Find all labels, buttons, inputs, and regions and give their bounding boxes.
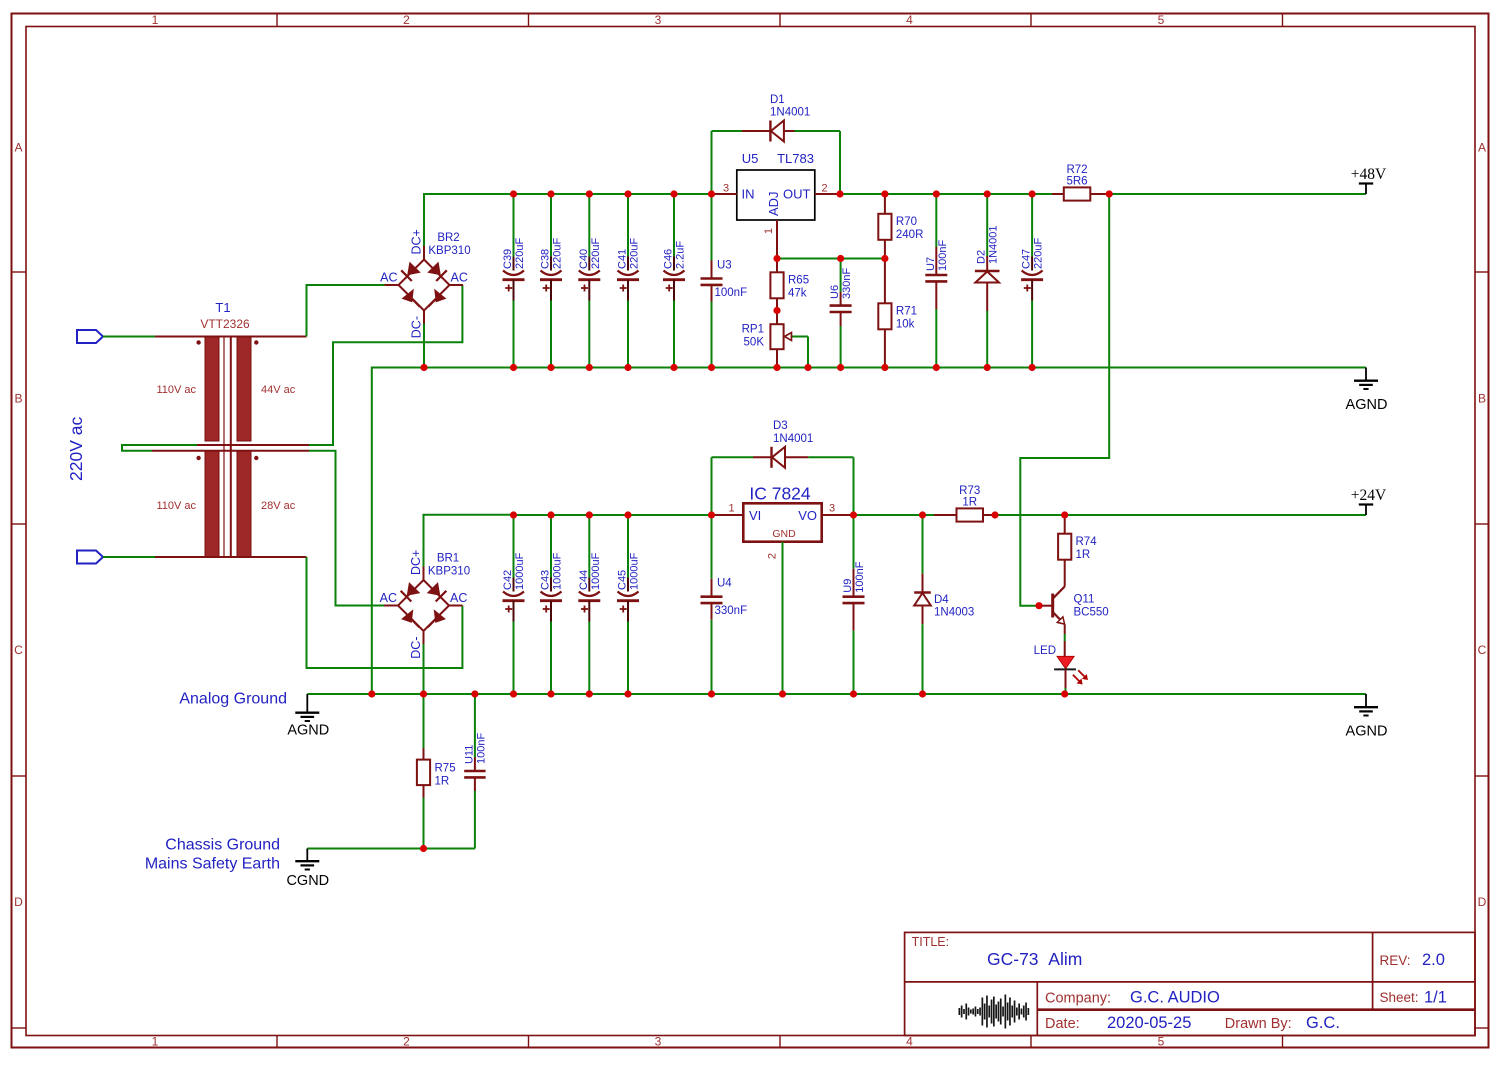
svg-text:T1: T1 bbox=[215, 300, 230, 315]
capacitor C40 220uF bbox=[578, 194, 602, 368]
svg-text:R70: R70 bbox=[896, 216, 917, 228]
svg-text:IN: IN bbox=[742, 187, 755, 202]
ground CGND bbox=[286, 849, 329, 890]
svg-text:R73: R73 bbox=[959, 485, 980, 497]
svg-text:G.C.: G.C. bbox=[1306, 1014, 1340, 1032]
svg-text:G.C. AUDIO: G.C. AUDIO bbox=[1130, 989, 1220, 1007]
svg-text:10k: 10k bbox=[896, 318, 915, 330]
power symbol +24V bbox=[1351, 487, 1387, 515]
capacitor C44 1000uF bbox=[578, 515, 602, 694]
svg-text:TITLE:: TITLE: bbox=[912, 935, 950, 949]
svg-text:AGND: AGND bbox=[1346, 724, 1388, 740]
svg-text:CGND: CGND bbox=[286, 873, 329, 889]
svg-text:C41: C41 bbox=[617, 249, 629, 269]
capacitor U11 100nF bbox=[463, 694, 487, 849]
ground AGND (top right) bbox=[1346, 368, 1388, 414]
svg-text:C43: C43 bbox=[540, 570, 552, 590]
capacitor C38 220uF bbox=[540, 194, 564, 368]
svg-text:KBP310: KBP310 bbox=[428, 566, 470, 578]
svg-text:+24V: +24V bbox=[1351, 487, 1387, 504]
potentiometer RP1 50K bbox=[742, 311, 808, 368]
wire +48V rail bbox=[1109, 193, 1366, 195]
company logo (audio waveform) bbox=[959, 995, 1030, 1029]
svg-text:LED: LED bbox=[1034, 645, 1056, 657]
svg-text:D: D bbox=[14, 895, 23, 909]
svg-text:3: 3 bbox=[829, 503, 835, 515]
capacitor C39 220uF bbox=[502, 194, 526, 368]
capacitor C41 220uF bbox=[617, 194, 641, 368]
svg-text:2: 2 bbox=[403, 13, 410, 27]
svg-text:D4: D4 bbox=[934, 594, 949, 606]
svg-text:100nF: 100nF bbox=[854, 561, 866, 592]
svg-text:KBP310: KBP310 bbox=[428, 245, 470, 257]
capacitor U7 100nF bbox=[925, 194, 949, 368]
capacitor U3 100nF bbox=[701, 194, 748, 368]
resistor R73 1R bbox=[934, 485, 995, 522]
svg-text:2: 2 bbox=[767, 553, 779, 559]
svg-text:1/1: 1/1 bbox=[1424, 989, 1447, 1007]
svg-text:2020-05-25: 2020-05-25 bbox=[1107, 1014, 1191, 1032]
svg-text:Company:: Company: bbox=[1045, 991, 1111, 1007]
svg-text:2.0: 2.0 bbox=[1422, 951, 1445, 969]
resistor R71 10k bbox=[878, 259, 917, 368]
ground AGND (bottom right) bbox=[1346, 694, 1388, 740]
svg-text:OUT: OUT bbox=[783, 187, 811, 202]
svg-text:5: 5 bbox=[1158, 13, 1165, 27]
svg-text:D2: D2 bbox=[976, 250, 988, 264]
svg-text:50K: 50K bbox=[744, 337, 765, 349]
diode D2 1N4001 bbox=[975, 194, 1000, 368]
svg-text:3: 3 bbox=[655, 1035, 662, 1049]
svg-text:AC: AC bbox=[380, 591, 397, 605]
svg-text:VI: VI bbox=[749, 508, 761, 523]
svg-text:1000uF: 1000uF bbox=[552, 552, 564, 590]
wire ADJ node bbox=[777, 258, 885, 260]
diode D3 1N4001 (bypass across IC 7824) bbox=[712, 420, 854, 515]
svg-text:BR2: BR2 bbox=[437, 232, 459, 244]
svg-text:AC: AC bbox=[450, 591, 467, 605]
svg-text:R74: R74 bbox=[1076, 536, 1098, 548]
resistor R65 47k bbox=[770, 259, 809, 311]
resistor R70 240R bbox=[878, 194, 923, 259]
svg-text:U6: U6 bbox=[829, 285, 841, 299]
svg-text:C38: C38 bbox=[540, 249, 552, 269]
svg-text:4: 4 bbox=[906, 1035, 913, 1049]
svg-text:1R: 1R bbox=[962, 497, 977, 509]
svg-text:C42: C42 bbox=[502, 570, 514, 590]
svg-text:1: 1 bbox=[763, 228, 775, 234]
svg-text:C47: C47 bbox=[1021, 249, 1033, 269]
wire output rail segment bbox=[840, 193, 1052, 195]
svg-text:2: 2 bbox=[821, 183, 827, 195]
wire VO to R73 bbox=[854, 514, 935, 516]
svg-text:C44: C44 bbox=[578, 570, 590, 590]
wire R72 output to Q11 base bbox=[1020, 194, 1109, 606]
svg-text:C: C bbox=[1478, 643, 1487, 657]
svg-text:220uF: 220uF bbox=[590, 238, 602, 269]
capacitor U4 330nF bbox=[701, 515, 748, 694]
svg-text:D1: D1 bbox=[770, 94, 785, 106]
wire 28V bottom to BR1 AC right bbox=[307, 557, 463, 668]
svg-text:C46: C46 bbox=[663, 249, 675, 269]
connector J1 (mains input top) bbox=[77, 330, 103, 343]
svg-text:Mains Safety Earth: Mains Safety Earth bbox=[145, 856, 280, 873]
svg-text:100nF: 100nF bbox=[715, 287, 748, 299]
svg-text:1: 1 bbox=[152, 1035, 159, 1049]
svg-text:220uF: 220uF bbox=[514, 238, 526, 269]
svg-text:U4: U4 bbox=[717, 578, 732, 590]
svg-text:D: D bbox=[1478, 895, 1487, 909]
svg-text:1N4001: 1N4001 bbox=[770, 107, 810, 119]
svg-text:BR1: BR1 bbox=[437, 553, 459, 565]
svg-text:330nF: 330nF bbox=[715, 605, 748, 617]
svg-text:R71: R71 bbox=[896, 305, 917, 317]
svg-text:REV:: REV: bbox=[1380, 953, 1411, 968]
svg-text:1000uF: 1000uF bbox=[629, 552, 641, 590]
wire BR2 DC- to ground bus bbox=[423, 324, 425, 368]
resistor R72 5R6 bbox=[1052, 164, 1109, 201]
LED bbox=[1034, 645, 1088, 694]
wire 24V input rail bbox=[514, 514, 712, 516]
svg-text:Date:: Date: bbox=[1045, 1016, 1080, 1032]
svg-text:5: 5 bbox=[1158, 1035, 1165, 1049]
svg-text:44V ac: 44V ac bbox=[261, 384, 296, 396]
row letters bbox=[14, 141, 1487, 910]
svg-text:3: 3 bbox=[655, 13, 662, 27]
svg-text:U5: U5 bbox=[742, 151, 759, 166]
transformer T1 VTT2326 bbox=[152, 300, 309, 557]
svg-text:GC-73 Alim: GC-73 Alim bbox=[987, 949, 1082, 969]
svg-text:100nF: 100nF bbox=[937, 240, 949, 271]
svg-text:DC+: DC+ bbox=[409, 550, 423, 575]
capacitor C45 1000uF bbox=[617, 515, 641, 694]
svg-text:1: 1 bbox=[728, 503, 734, 515]
svg-text:R72: R72 bbox=[1066, 164, 1087, 176]
title block bbox=[905, 932, 1475, 1035]
wire bbox=[103, 556, 155, 558]
capacitor U6 330nF bbox=[829, 259, 853, 368]
resistor R74 1R bbox=[1058, 515, 1097, 587]
svg-text:1N4001: 1N4001 bbox=[773, 433, 813, 445]
svg-text:110V ac: 110V ac bbox=[156, 384, 196, 396]
svg-text:1: 1 bbox=[152, 13, 159, 27]
svg-text:C40: C40 bbox=[578, 249, 590, 269]
bridge rectifier BR1 KBP310 bbox=[380, 550, 470, 659]
svg-text:U9: U9 bbox=[842, 579, 854, 593]
wire bbox=[103, 336, 155, 338]
svg-text:D3: D3 bbox=[773, 420, 788, 432]
svg-text:4: 4 bbox=[906, 13, 913, 27]
svg-text:TL783: TL783 bbox=[777, 151, 814, 166]
transistor Q11 BC550 bbox=[1039, 587, 1109, 657]
wire +24V rail bbox=[995, 514, 1366, 516]
svg-text:DC+: DC+ bbox=[410, 229, 424, 254]
svg-text:110V ac: 110V ac bbox=[156, 500, 196, 512]
svg-text:A: A bbox=[14, 141, 22, 155]
svg-text:B: B bbox=[14, 392, 22, 406]
svg-text:5R6: 5R6 bbox=[1066, 176, 1087, 188]
svg-text:1N4001: 1N4001 bbox=[988, 225, 1000, 264]
column numbers bbox=[152, 13, 1165, 1049]
svg-text:100nF: 100nF bbox=[475, 733, 487, 764]
wire BR1 DC+ to input rail bbox=[424, 515, 514, 567]
capacitor C46 2.2uF bbox=[663, 194, 687, 368]
svg-text:B: B bbox=[1478, 392, 1486, 406]
svg-text:Drawn By:: Drawn By: bbox=[1225, 1016, 1292, 1032]
svg-text:DC-: DC- bbox=[409, 637, 423, 659]
svg-text:1000uF: 1000uF bbox=[590, 552, 602, 590]
svg-text:U7: U7 bbox=[925, 257, 937, 271]
svg-text:R65: R65 bbox=[788, 274, 809, 286]
svg-text:C: C bbox=[14, 643, 23, 657]
svg-text:1R: 1R bbox=[1076, 549, 1091, 561]
bridge rectifier BR2 KBP310 bbox=[380, 229, 470, 338]
svg-text:ADJ: ADJ bbox=[766, 191, 781, 216]
svg-text:47k: 47k bbox=[788, 287, 807, 299]
svg-text:BC550: BC550 bbox=[1074, 607, 1109, 619]
capacitor C43 1000uF bbox=[540, 515, 564, 694]
svg-text:Q11: Q11 bbox=[1074, 594, 1095, 606]
svg-text:1R: 1R bbox=[435, 776, 450, 788]
wire 28V top to BR1 AC left bbox=[309, 451, 385, 606]
svg-text:3: 3 bbox=[723, 183, 729, 195]
wire 44V top to BR2 AC left bbox=[307, 285, 385, 337]
svg-text:240R: 240R bbox=[896, 229, 924, 241]
svg-text:A: A bbox=[1478, 141, 1486, 155]
wire primary center link bbox=[122, 445, 197, 451]
svg-text:220uF: 220uF bbox=[1033, 238, 1045, 269]
capacitor C47 220uF bbox=[1021, 194, 1045, 368]
ground AGND (bottom left) bbox=[287, 694, 329, 739]
svg-text:220uF: 220uF bbox=[552, 238, 564, 269]
svg-text:220V ac: 220V ac bbox=[66, 417, 86, 481]
capacitor C42 1000uF bbox=[502, 515, 526, 694]
svg-text:R75: R75 bbox=[435, 763, 456, 775]
capacitor U9 100nF bbox=[842, 515, 866, 694]
svg-text:VTT2326: VTT2326 bbox=[200, 317, 250, 331]
wire BR2 DC+ to input rail bbox=[424, 194, 712, 246]
svg-text:C39: C39 bbox=[502, 249, 514, 269]
svg-text:2.2uF: 2.2uF bbox=[675, 241, 687, 269]
svg-text:2: 2 bbox=[403, 1035, 410, 1049]
svg-text:220uF: 220uF bbox=[629, 238, 641, 269]
wire 44V bottom to BR2 AC right bbox=[309, 285, 462, 445]
svg-text:RP1: RP1 bbox=[742, 324, 764, 336]
svg-text:Sheet:: Sheet: bbox=[1380, 990, 1419, 1005]
power symbol +48V bbox=[1351, 166, 1387, 194]
svg-text:AC: AC bbox=[380, 271, 397, 285]
svg-text:Analog Ground: Analog Ground bbox=[179, 691, 287, 708]
svg-text:1000uF: 1000uF bbox=[514, 552, 526, 590]
svg-text:C45: C45 bbox=[617, 570, 629, 590]
diode D1 1N4001 (bypass across U5) bbox=[712, 94, 841, 194]
wire BR1 DC- to ground bus bbox=[423, 644, 425, 694]
ground bus (48V section) bbox=[372, 368, 1366, 695]
svg-text:VO: VO bbox=[798, 508, 817, 523]
chassis ground wire bbox=[307, 848, 475, 850]
svg-text:U3: U3 bbox=[717, 260, 732, 272]
svg-text:AC: AC bbox=[451, 271, 468, 285]
svg-text:DC-: DC- bbox=[410, 316, 424, 338]
svg-text:AGND: AGND bbox=[287, 723, 329, 739]
svg-text:AGND: AGND bbox=[1346, 397, 1388, 413]
svg-text:28V ac: 28V ac bbox=[261, 500, 296, 512]
analog ground bus (24V section) bbox=[307, 693, 1366, 695]
connector J2 (mains input bottom) bbox=[77, 551, 103, 564]
svg-text:+48V: +48V bbox=[1351, 166, 1387, 183]
svg-text:1N4003: 1N4003 bbox=[934, 607, 974, 619]
resistor R75 1R bbox=[417, 694, 456, 849]
svg-text:U11: U11 bbox=[463, 745, 475, 764]
svg-text:GND: GND bbox=[772, 528, 796, 540]
regulator U5 TL783 bbox=[712, 151, 841, 259]
regulator IC 7824 bbox=[712, 484, 854, 695]
svg-text:Chassis Ground: Chassis Ground bbox=[165, 837, 280, 854]
svg-text:330nF: 330nF bbox=[841, 268, 853, 299]
diode D4 1N4003 bbox=[914, 515, 974, 694]
svg-text:IC 7824: IC 7824 bbox=[749, 484, 811, 504]
